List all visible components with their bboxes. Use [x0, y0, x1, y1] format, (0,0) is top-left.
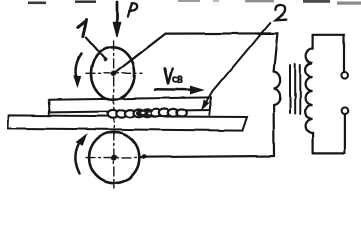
label V of welding speed — [165, 68, 173, 83]
wire from primary to upper supply terminal — [313, 35, 344, 72]
transformer T1 core — [290, 64, 300, 114]
force arrow P — [113, 2, 120, 37]
top roller centre dot — [111, 71, 117, 77]
transformer T1 primary winding (6 turns) — [306, 35, 313, 154]
wire from top roller to transformer secondary — [114, 33, 277, 73]
welding speed arrow — [155, 86, 203, 93]
leader line from label 2 to weld seam — [202, 23, 270, 110]
label 1 — [78, 20, 87, 37]
transformer T1 secondary winding (2 turns) — [274, 72, 281, 105]
junction blob on bottom wire — [142, 154, 147, 159]
upper sheet left end stroke — [48, 110, 50, 116]
upper sheet (workpiece) — [49, 97, 212, 112]
leader line from label 1 to top roller — [86, 38, 107, 62]
upper supply terminal — [341, 72, 348, 79]
common vertical centreline of rollers — [113, 41, 115, 188]
ink-pooled nuggets in seam middle — [136, 110, 152, 117]
label P — [128, 3, 137, 16]
lower supply terminal — [342, 107, 349, 114]
roller electrode 1 (top roller) — [91, 47, 135, 99]
lower sheet (workpiece) — [8, 115, 247, 130]
rotation arrow of bottom roller — [75, 135, 86, 174]
roller electrode (bottom roller) — [89, 132, 139, 183]
bottom roller horizontal centreline — [86, 156, 140, 158]
weld seam (chain of nuggets) — [108, 109, 187, 118]
upper sheet right end stroke — [209, 102, 210, 116]
bottom roller centre dot — [111, 155, 117, 161]
wire from bottom roller to transformer secondary — [140, 105, 275, 157]
label 2 — [275, 5, 286, 20]
top roller horizontal centreline — [86, 72, 142, 74]
wire from lower supply terminal to primary — [313, 114, 345, 153]
label св subscript — [173, 76, 182, 82]
rotation arrow of top roller — [74, 54, 82, 87]
